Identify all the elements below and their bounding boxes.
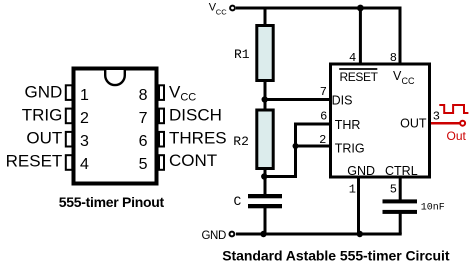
wire R1 to R2 xyxy=(264,82,267,110)
svg-text:7: 7 xyxy=(320,85,327,99)
pin 5 stub xyxy=(159,155,164,170)
pin 8 stub xyxy=(159,85,164,100)
pin 4 wire xyxy=(359,8,362,64)
wire R2 to C xyxy=(264,170,267,195)
svg-text:R1: R1 xyxy=(234,47,250,62)
wire C to GND rail xyxy=(264,208,267,234)
R1 top stub wire xyxy=(264,7,267,26)
pin 5 wire lower xyxy=(399,212,402,234)
svg-text:CONT: CONT xyxy=(169,151,217,170)
pin 4 stub xyxy=(66,155,73,170)
pin 1 wire xyxy=(357,178,360,234)
TRIG wire (pin2) xyxy=(294,145,330,148)
svg-text:1: 1 xyxy=(80,87,89,104)
555 timer block U1 xyxy=(331,64,430,177)
svg-text:4: 4 xyxy=(349,51,356,65)
svg-text:5: 5 xyxy=(139,156,148,173)
svg-text:C: C xyxy=(234,194,242,209)
pin 3 stub xyxy=(66,132,73,147)
Vcc rail wire + pin8 wire xyxy=(236,8,400,64)
capacitor 10nF bottom plate xyxy=(383,210,418,214)
svg-text:TRIG: TRIG xyxy=(22,106,63,125)
svg-text:CC: CC xyxy=(216,8,227,17)
wire to TRIG stub xyxy=(264,124,295,177)
svg-text:1: 1 xyxy=(349,183,356,197)
svg-text:4: 4 xyxy=(80,156,89,173)
pin 5 wire upper xyxy=(399,178,402,200)
svg-text:RESET: RESET xyxy=(340,70,379,84)
svg-text:OUT: OUT xyxy=(400,117,427,131)
svg-text:R2: R2 xyxy=(233,134,249,149)
svg-text:GND: GND xyxy=(25,82,63,101)
node dot C/GND xyxy=(260,231,266,237)
svg-text:2: 2 xyxy=(319,133,326,147)
capacitor 10nF top plate xyxy=(383,199,418,203)
pin 1 stub xyxy=(66,85,73,100)
node dot pin1/GND xyxy=(357,231,363,237)
pin 6 stub xyxy=(159,132,164,147)
svg-text:THR: THR xyxy=(335,118,361,132)
svg-text:CTRL: CTRL xyxy=(385,164,418,178)
capacitor C top plate xyxy=(248,194,282,198)
svg-text:OUT: OUT xyxy=(26,129,62,148)
GND rail wire xyxy=(236,233,402,236)
node dot pin4/Vcc xyxy=(357,5,364,12)
svg-text:6: 6 xyxy=(320,109,327,123)
svg-text:3: 3 xyxy=(433,110,440,124)
GND terminal circle xyxy=(230,232,235,237)
svg-text:Standard Astable 555-timer Cir: Standard Astable 555-timer Circuit xyxy=(222,248,450,264)
svg-text:7: 7 xyxy=(139,110,148,127)
DIS wire (pin7) xyxy=(265,98,330,101)
svg-text:555-timer Pinout: 555-timer Pinout xyxy=(59,194,165,210)
svg-text:CC: CC xyxy=(402,76,415,86)
capacitor C bottom plate xyxy=(248,204,282,208)
node dot TRIG xyxy=(293,143,299,149)
svg-text:6: 6 xyxy=(139,133,148,150)
resistor R1 xyxy=(257,26,273,81)
svg-text:10nF: 10nF xyxy=(421,203,445,214)
node dot DIS xyxy=(262,96,268,102)
pin 2 stub xyxy=(66,109,73,124)
square wave icon (red) xyxy=(439,105,468,113)
Vcc terminal circle xyxy=(230,6,235,11)
Out terminal circle (red) xyxy=(460,121,465,126)
IC package body (555 pinout) xyxy=(74,69,157,184)
svg-text:3: 3 xyxy=(80,133,89,150)
svg-text:5: 5 xyxy=(390,183,397,197)
svg-text:DIS: DIS xyxy=(332,93,353,107)
svg-text:8: 8 xyxy=(390,51,397,65)
svg-text:8: 8 xyxy=(139,87,148,104)
svg-text:RESET: RESET xyxy=(6,152,63,171)
pin 7 stub xyxy=(159,109,164,124)
resistor R2 xyxy=(257,110,273,169)
svg-text:DISCH: DISCH xyxy=(169,106,222,125)
svg-text:2: 2 xyxy=(80,110,89,127)
pin-1 notch xyxy=(105,70,125,85)
node dot R2 bottom xyxy=(261,173,267,179)
svg-text:THRES: THRES xyxy=(169,129,227,148)
THR wire (pin6) xyxy=(294,123,330,126)
OUT wire (pin3, red) xyxy=(431,122,460,125)
svg-text:GND: GND xyxy=(347,164,375,178)
svg-text:GND: GND xyxy=(202,230,226,242)
svg-text:TRIG: TRIG xyxy=(335,142,365,156)
svg-text:Out: Out xyxy=(447,129,467,143)
RESET overline xyxy=(339,68,377,70)
